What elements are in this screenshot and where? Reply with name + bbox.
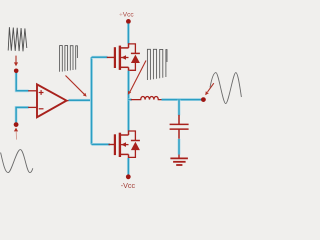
wire: switching node to inductor xyxy=(129,98,132,101)
mosfet Q2 (lower, with body diode) xyxy=(109,130,140,158)
wire: lower gate xyxy=(92,143,111,146)
node: audio input xyxy=(14,122,19,127)
wire: +Vcc to Q1 drain xyxy=(127,24,130,44)
op-amp U1 comparator xyxy=(28,84,69,117)
node: -Vcc xyxy=(126,174,131,179)
wire: audio input to op-amp inverting input xyxy=(16,107,29,124)
wire: Q1 source to Q2 drain (switching node) xyxy=(127,71,130,131)
node: +Vcc xyxy=(126,19,131,24)
wire: inductor to output node xyxy=(162,98,204,101)
wire: capacitor to ground xyxy=(178,139,181,155)
wire: filter tap down to capacitor xyxy=(178,100,181,116)
sine wave icon (audio input) xyxy=(1,150,33,173)
ground xyxy=(170,155,188,165)
arrow: PWM indication at comparator output xyxy=(66,76,87,97)
PWM waveform icon 1 xyxy=(60,46,78,72)
wire: gate bus vertical xyxy=(90,57,93,144)
mosfet Q1 (upper, with body diode) xyxy=(107,43,140,71)
triangle-wave source icon xyxy=(8,27,27,51)
svg-text:-Vcc: -Vcc xyxy=(121,181,136,190)
wire: comparator output xyxy=(69,99,92,102)
arrow from audio source into node xyxy=(14,128,18,140)
node: output xyxy=(201,97,206,102)
wire: upper gate xyxy=(92,56,108,59)
arrow: PWM indication at switching node xyxy=(128,61,146,95)
capacitor C1 xyxy=(170,115,189,139)
wire: +input node to op-amp xyxy=(16,73,28,91)
arrow into comparator non-inverting input xyxy=(14,56,18,67)
wire: Q2 source to -Vcc xyxy=(127,158,130,175)
arrow: output sine indication xyxy=(205,83,214,95)
node: comparator + input xyxy=(14,69,19,74)
inductor L1 xyxy=(131,97,162,100)
sine wave icon (output) xyxy=(210,73,241,104)
svg-text:+Vcc: +Vcc xyxy=(119,12,134,19)
PWM waveform icon 2 xyxy=(147,49,167,80)
